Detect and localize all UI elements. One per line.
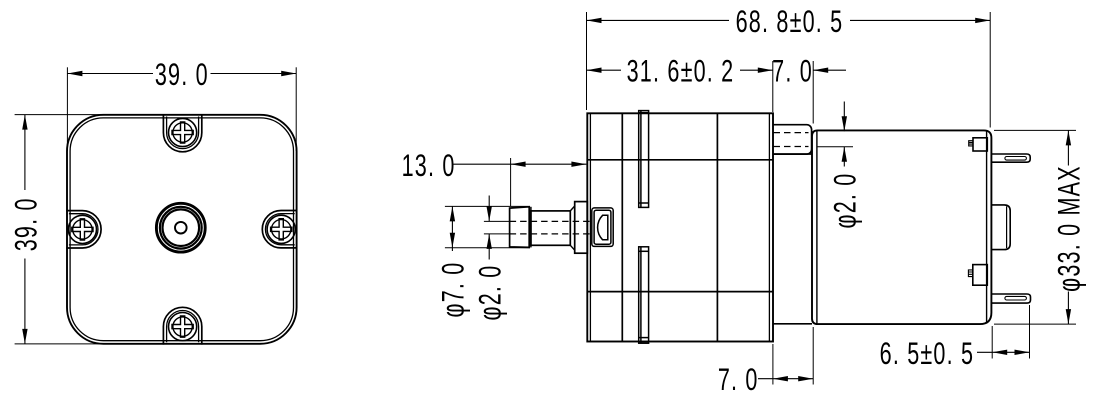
svg-text:7. 0: 7. 0 — [718, 362, 759, 397]
pump body inner right wall line — [768, 113, 770, 341]
pump body vertical seam 2 — [716, 113, 718, 341]
dimension 6.5±0.5 — [880, 305, 1030, 371]
hidden hole line upper (solid ext + dashes) — [484, 220, 510, 222]
adapter step section top edge — [773, 153, 812, 155]
barb cone base second line — [530, 207, 532, 248]
clamp slot upper — [639, 111, 649, 208]
svg-text:φ2. 0: φ2. 0 — [472, 265, 507, 321]
rear tube hidden hole lines — [774, 132, 809, 134]
motor body outline — [812, 130, 991, 324]
terminal base bump top — [973, 138, 987, 151]
svg-text:φ2. 0: φ2. 0 — [827, 173, 862, 229]
svg-text:7. 0: 7. 0 — [772, 53, 813, 88]
pump cover outer outline — [67, 115, 297, 344]
dimension phi2.0 nozzle — [472, 196, 507, 321]
boss right (screw lug) — [262, 211, 297, 248]
dimension 68.8±0.5 — [587, 4, 991, 128]
motor rear crimp inner line — [986, 132, 988, 323]
barb tube — [531, 211, 570, 245]
brush cap inner line — [1006, 206, 1008, 248]
screw right — [267, 215, 295, 243]
hidden hole line lower (solid ext + dashes) — [484, 233, 510, 235]
boss left (screw lug) — [66, 211, 101, 248]
svg-text:39. 0: 39. 0 — [8, 197, 43, 251]
clamp slot lower — [639, 247, 649, 343]
terminal tab bottom — [991, 294, 1030, 303]
boss top (screw lug) — [163, 114, 201, 152]
screw bottom — [169, 313, 197, 341]
svg-text:31. 6±0. 2: 31. 6±0. 2 — [627, 53, 735, 88]
adapter step section bottom edge — [773, 323, 812, 325]
terminal bump bottom serration — [968, 270, 972, 277]
dimension 39.0 horizontal — [67, 57, 296, 151]
barb flange — [575, 202, 588, 254]
boss bottom (screw lug) — [163, 307, 201, 344]
dimension 7.0 bottom — [718, 327, 813, 397]
terminal bump top serration — [969, 141, 973, 146]
terminal base bump bottom — [973, 265, 988, 286]
dimension 31.6±0.2 — [587, 53, 773, 112]
terminal tab top slot — [1005, 157, 1027, 161]
motor front plate inner line — [816, 130, 818, 324]
inlet boss inside body — [592, 208, 613, 247]
hose barb cone — [510, 207, 530, 248]
svg-text:39. 0: 39. 0 — [155, 57, 209, 92]
pump body inner left wall line — [589, 113, 591, 341]
pump body upper horizontal parting line — [587, 159, 773, 161]
svg-text:φ33. 0 MAX: φ33. 0 MAX — [1052, 165, 1087, 292]
dimension phi2.0 rear tube — [818, 102, 863, 229]
svg-text:13. 0: 13. 0 — [402, 148, 456, 183]
pump body vertical seam 1 — [621, 113, 623, 341]
dimension phi33.0 MAX — [994, 130, 1087, 324]
svg-text:φ7. 0: φ7. 0 — [436, 262, 471, 318]
center inlet port — [156, 203, 205, 252]
terminal tab bottom slot — [1005, 296, 1027, 300]
pump cover inner outline — [70, 118, 293, 341]
screw left — [68, 215, 96, 243]
dimension 7.0 top — [772, 53, 846, 123]
svg-text:6. 5±0. 5: 6. 5±0. 5 — [880, 336, 975, 371]
dimension 39.0 vertical — [8, 115, 104, 344]
pump body lower horizontal parting line — [587, 291, 773, 293]
screw top — [169, 118, 197, 146]
barb tube to flange chamfer top — [570, 206, 574, 250]
brush cap bump — [991, 205, 1010, 250]
terminal tab top — [991, 154, 1030, 162]
rear outlet tube — [773, 125, 812, 154]
pump body outline — [587, 113, 773, 341]
svg-text:68. 8±0. 5: 68. 8±0. 5 — [736, 4, 844, 39]
dimension phi7.0 — [436, 206, 530, 317]
dimension 13.0 — [402, 148, 587, 207]
